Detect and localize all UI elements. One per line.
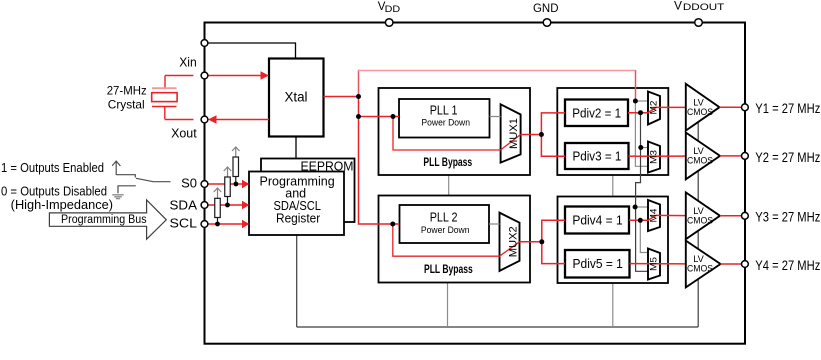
svg-text:Power Down: Power Down [421, 118, 470, 128]
wire Y1 buffer to output pin [720, 106, 742, 108]
wire select feed dot1 to M2 upper input [635, 100, 648, 102]
wire Y4 buffer to output pin [721, 263, 742, 265]
wire split down to Pdiv5 input [542, 242, 565, 264]
junction dot2 Pdiv2 output [638, 110, 643, 115]
wire MUX1 internal select diagonal [501, 135, 521, 151]
wire PLL2 bypass [393, 224, 500, 256]
wire node B to PLL1 input [359, 116, 400, 118]
buffer Y3 LVCMOS [686, 192, 720, 239]
wire Pdiv2 output chain down to M4/M5 feed [636, 113, 648, 272]
MUX2 output junction dot [539, 239, 544, 244]
wire PLL2 output to MUX2 [489, 223, 500, 225]
terminal Y1 [742, 104, 749, 111]
terminal Y4 [742, 261, 749, 268]
buffer Y2 LVCMOS [686, 133, 720, 180]
resistor pullup R3 (SCL) [214, 188, 222, 198]
svg-text:MUX1: MUX1 [508, 118, 520, 149]
svg-text:Y1 = 27 MHz: Y1 = 27 MHz [755, 101, 820, 116]
wire split up to Pdiv2 input [541, 113, 565, 135]
svg-text:Power Down: Power Down [421, 225, 470, 235]
svg-text:M2: M2 [649, 101, 660, 115]
svg-text:MUX2: MUX2 [508, 226, 520, 257]
wire PLL1 bypass [393, 117, 501, 151]
EEPROM box [261, 159, 355, 223]
svg-text:SCL: SCL [170, 216, 198, 231]
junction dot1 top feed [633, 99, 638, 104]
terminal Y3 [742, 212, 749, 219]
wire split up to Pdiv4 input [542, 220, 565, 242]
PLL2 Power Down box [400, 205, 490, 243]
wire Pdiv4/5 container to control bus [612, 283, 614, 327]
buffer Y1 LVCMOS [686, 84, 720, 131]
svg-text:Pdiv5 = 1: Pdiv5 = 1 [573, 257, 623, 271]
terminal Xout [201, 116, 208, 123]
node C junction dot (PLL1 input) [391, 114, 396, 119]
svg-text:Register: Register [276, 211, 320, 225]
wire select feed dot1 down to M3 lower input [635, 101, 648, 166]
svg-text:LV: LV [693, 146, 704, 156]
PLL1 Power Down box [399, 99, 490, 138]
wire S0 pin line [208, 183, 243, 185]
svg-text:EEPROM: EEPROM [301, 158, 354, 173]
wire PLL2 container to control bus [447, 283, 449, 328]
resistor pullup R1 (S0) [232, 147, 240, 157]
svg-text:Pdiv3 = 1: Pdiv3 = 1 [572, 150, 621, 164]
op mux M3 [648, 142, 660, 173]
wire Pdiv4 output to M4 [629, 215, 656, 220]
Pdiv5 box [565, 250, 630, 278]
terminal GND [543, 19, 551, 27]
wire M2 output to Y1 buffer [656, 106, 686, 108]
wire SCL pin line [208, 223, 243, 225]
svg-text:Pdiv4 = 1: Pdiv4 = 1 [572, 213, 622, 227]
wire Xtal to Xout red arrow [216, 119, 269, 121]
MUX1 output junction dot [539, 132, 544, 137]
svg-text:M3: M3 [649, 150, 660, 164]
Pdiv2/Pdiv3 container box [557, 88, 668, 175]
svg-text:Xin: Xin [179, 56, 197, 70]
terminal SCL [201, 221, 208, 228]
svg-text:1 = Outputs Enabled: 1 = Outputs Enabled [1, 161, 104, 175]
wire dot1L to M4 upper input [635, 206, 648, 208]
terminal Xin [201, 72, 208, 79]
svg-text:CMOS: CMOS [687, 215, 713, 225]
wire MUX2 output to Pdiv4/Pdiv5 split [520, 241, 542, 243]
wire Xtal bottom to EEPROM top [295, 137, 297, 159]
svg-text:PLL 2: PLL 2 [430, 210, 458, 225]
wire node A down to node B and PLL2 row [359, 97, 400, 225]
crystal top wire [165, 75, 193, 77]
wire Xin red arrow into Xtal [208, 75, 262, 77]
svg-text:DDOUT: DDOUT [683, 2, 725, 13]
wire top feed down to dot1 [635, 71, 637, 102]
wire Pdiv5 output through M5 to Y4 buffer [630, 263, 686, 265]
wire M4 output to Y3 buffer [656, 214, 686, 216]
junction dot S0 pullup [234, 182, 239, 187]
wire Pdiv3 output through M3 to Y2 buffer [629, 155, 686, 157]
wire MUX2 internal select diagonal [500, 242, 520, 256]
outer device boundary box [205, 23, 746, 344]
PLL1 container box [379, 88, 531, 175]
svg-text:Y2 = 27 MHz: Y2 = 27 MHz [755, 150, 820, 165]
wire control bus riser to output buffers [697, 106, 699, 327]
wire control bus horizontal [297, 326, 699, 328]
op mux M5 [648, 249, 660, 280]
terminal SDA [201, 202, 208, 209]
svg-text:SDA: SDA [170, 198, 198, 213]
crystal body X1 [152, 93, 177, 102]
buffer Y4 LVCMOS [686, 241, 721, 288]
wire top feed horizontal (light red) [358, 70, 636, 72]
svg-text:S0: S0 [181, 175, 197, 190]
Pdiv4/Pdiv5 container box [558, 197, 669, 284]
svg-text:LV: LV [693, 254, 704, 264]
Pdiv2 box [565, 100, 628, 127]
node A junction dot [356, 94, 361, 99]
svg-text:M4: M4 [649, 209, 660, 223]
PLL2 container box [379, 196, 531, 283]
svg-text:GND: GND [533, 3, 559, 15]
svg-text:(High-Impedance): (High-Impedance) [11, 198, 113, 212]
crystal bottom lead [164, 107, 166, 120]
switch S0 mode selector [112, 161, 170, 193]
crystal top lead [164, 76, 166, 88]
wire Y2 buffer to output pin [720, 155, 742, 157]
wire Xtal output to node A [324, 96, 359, 98]
junction dot1L M4 feed [633, 205, 638, 210]
wire SDA pin line [208, 204, 243, 206]
svg-text:PLL 1: PLL 1 [430, 102, 458, 117]
wire PLL1 container to PLL2 container [448, 175, 450, 196]
svg-text:CMOS: CMOS [687, 264, 713, 274]
svg-text:CMOS: CMOS [687, 155, 713, 165]
svg-text:PLL Bypass: PLL Bypass [423, 157, 472, 169]
crystal bottom wire [165, 119, 193, 121]
Xtal block [269, 59, 324, 137]
svg-text:Crystal: Crystal [108, 98, 145, 112]
svg-text:27-MHz: 27-MHz [107, 83, 147, 97]
svg-text:Pdiv2 = 1: Pdiv2 = 1 [572, 106, 621, 120]
svg-text:LV: LV [693, 206, 704, 216]
junction dot2L Pdiv4 output [638, 218, 643, 223]
svg-text:0 = Outputs Disabled: 0 = Outputs Disabled [1, 185, 107, 199]
op mux MUX1 [501, 104, 521, 162]
Pdiv3 box [565, 143, 629, 169]
wire programming-register to control bus [296, 235, 298, 327]
wire PLL1 output to MUX1 [490, 116, 501, 118]
wire dot2L down to M5 upper input [640, 220, 648, 252]
svg-text:CMOS: CMOS [687, 107, 713, 117]
crystal top plate (light) [152, 87, 177, 89]
svg-text:Xtal: Xtal [284, 90, 307, 105]
svg-text:DD: DD [385, 4, 401, 14]
terminal VDD [385, 19, 393, 27]
resistor pullup R2 (SDA) [224, 167, 232, 177]
op mux M2 [648, 92, 660, 125]
junction dot SDA pullup [225, 203, 230, 208]
junction dot SCL pullup [215, 222, 220, 227]
svg-text:Xout: Xout [171, 127, 197, 141]
svg-text:M5: M5 [649, 257, 660, 271]
wire split down to Pdiv3 input [541, 135, 565, 157]
crystal bottom plate [152, 106, 177, 108]
wire dot3 to M3 upper input [641, 147, 648, 149]
svg-text:PLL Bypass: PLL Bypass [424, 264, 473, 276]
wire Y3 buffer to output pin [720, 215, 742, 217]
wire Pdiv2 output to M2 [628, 107, 656, 112]
wire Pdiv2/3 container to Pdiv4/5 container [612, 175, 614, 197]
svg-text:Y4 = 27 MHz: Y4 = 27 MHz [755, 258, 820, 273]
node B junction dot [356, 114, 361, 119]
wire MUX1 output to Pdiv2/Pdiv3 split [521, 134, 542, 136]
wire node A up to top feed corner [358, 70, 360, 97]
svg-text:V: V [674, 0, 682, 13]
node D junction dot (PLL2 input) [390, 222, 395, 227]
terminal VDDOUT [695, 19, 703, 27]
Pdiv4 box [565, 207, 629, 234]
op mux MUX2 [500, 213, 520, 271]
programming bus block arrow [49, 200, 166, 239]
ground [112, 195, 123, 199]
Programming and SDA/SCL Register box [249, 172, 344, 236]
junction dot3 M3 feed [638, 145, 643, 150]
terminal S0 [201, 181, 208, 188]
svg-text:Y3 = 27 MHz: Y3 = 27 MHz [755, 210, 820, 225]
terminal Y2 [742, 153, 749, 160]
op mux M4 [648, 200, 660, 231]
wire top-left terminal to Xtal top [205, 43, 296, 59]
svg-text:Programming Bus: Programming Bus [61, 214, 147, 226]
svg-text:LV: LV [693, 97, 704, 107]
terminal top-left [201, 40, 208, 47]
